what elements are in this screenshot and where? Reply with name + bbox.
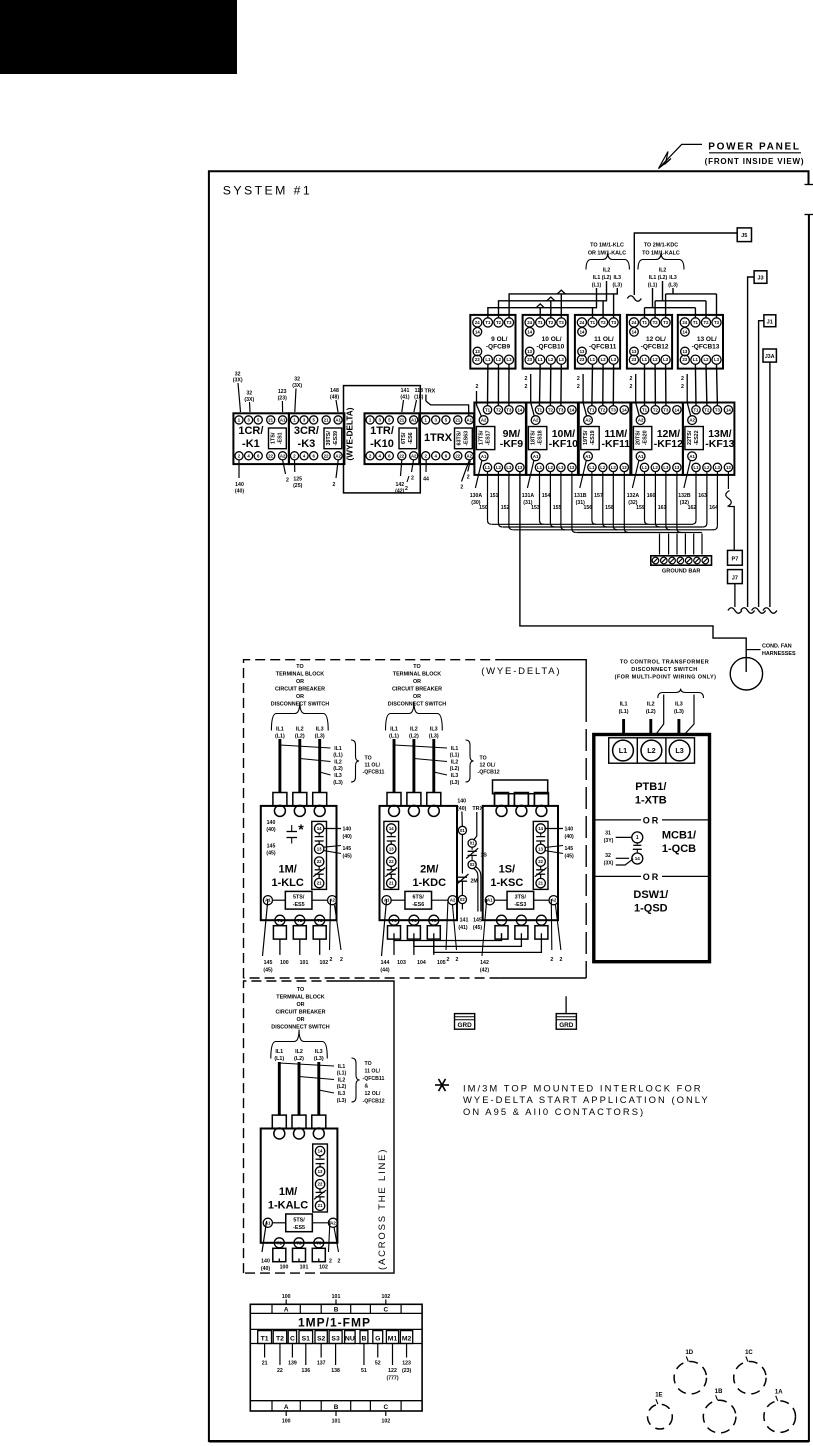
svg-text:(L1): (L1) [275, 734, 285, 740]
overload relay 9OL/-QFCB9 [470, 315, 515, 369]
svg-text:21: 21 [389, 881, 394, 886]
svg-text:131B: 131B [574, 493, 587, 499]
svg-text:IL1: IL1 [275, 1049, 283, 1055]
svg-text:L3: L3 [611, 357, 617, 362]
svg-text:-QFCB9: -QFCB9 [486, 344, 511, 351]
svg-text:132B: 132B [678, 493, 691, 499]
wire 2 2 from 1TR A2 [412, 460, 414, 472]
svg-text:01: 01 [470, 841, 475, 846]
svg-text:1MP/1-FMP: 1MP/1-FMP [298, 1316, 371, 1330]
svg-text:WYE-DELTA START APPLICATION (O: WYE-DELTA START APPLICATION (ONLY [463, 1094, 710, 1105]
wire 164 to P7 brace [727, 472, 729, 490]
svg-text:142: 142 [395, 482, 404, 488]
svg-text:-QFCB12: -QFCB12 [363, 1099, 385, 1105]
svg-text:-KF12: -KF12 [654, 438, 683, 450]
contactor 13M/KF13 [683, 403, 735, 475]
brace group 1 [586, 253, 629, 270]
wire J5 to panel [634, 233, 737, 295]
svg-text:L3: L3 [675, 746, 683, 755]
svg-text:(L3): (L3) [314, 1056, 324, 1062]
svg-text:L2: L2 [496, 465, 502, 470]
harness circle 1D [674, 1362, 706, 1394]
svg-text:(3X): (3X) [233, 378, 243, 384]
svg-text:(L3): (L3) [333, 780, 343, 786]
svg-text:(18): (18) [414, 395, 423, 401]
svg-text:13: 13 [570, 465, 575, 470]
svg-text:13: 13 [538, 846, 543, 851]
svg-text:21: 21 [324, 417, 329, 422]
svg-text:2: 2 [467, 475, 470, 481]
svg-text:18TS/: 18TS/ [531, 430, 537, 445]
svg-text:S1: S1 [302, 1335, 311, 1342]
wire labels under 9M [475, 461, 482, 489]
svg-text:OR: OR [413, 679, 421, 685]
svg-text:23: 23 [632, 357, 637, 362]
svg-text:M1: M1 [388, 1335, 398, 1342]
svg-text:A2: A2 [411, 453, 417, 458]
svg-text:14: 14 [580, 329, 585, 334]
svg-text:L3: L3 [558, 465, 564, 470]
svg-text:5TS/: 5TS/ [293, 1217, 305, 1223]
svg-text:OR: OR [643, 872, 661, 882]
svg-text:A1: A1 [689, 454, 695, 459]
svg-text:(L2): (L2) [295, 734, 305, 740]
cond fan harness circle [730, 658, 762, 690]
1MP terminal cells [250, 1343, 422, 1345]
overload relay 13OL/-QFCB13 [678, 315, 723, 369]
svg-text:A1: A1 [533, 454, 539, 459]
svg-text:DSW1/: DSW1/ [633, 889, 668, 901]
svg-text:IL1: IL1 [649, 275, 657, 281]
wires 10M L1-L3 to ground bus [539, 472, 541, 521]
svg-text:2: 2 [559, 957, 562, 963]
svg-text:102: 102 [319, 1265, 328, 1271]
svg-text:(40): (40) [565, 834, 574, 840]
OR divider 2 [594, 875, 641, 877]
svg-text:NU: NU [345, 1335, 355, 1342]
svg-text:A1: A1 [411, 417, 417, 422]
svg-text:123: 123 [402, 1361, 411, 1367]
svg-text:L1: L1 [538, 357, 544, 362]
svg-text:(777): (777) [386, 1376, 398, 1382]
brace control transformer [658, 689, 704, 698]
svg-text:14: 14 [683, 329, 688, 334]
svg-text:11 OL/: 11 OL/ [365, 763, 381, 769]
relay 1TR/-K10 [365, 413, 420, 464]
svg-text:L1: L1 [589, 465, 595, 470]
svg-text:DISCONNECT SWITCH: DISCONNECT SWITCH [631, 667, 697, 673]
wires 100 101 102 below 1MP [285, 1411, 287, 1416]
svg-text:T1: T1 [277, 1240, 283, 1245]
svg-text:2: 2 [338, 1259, 341, 1265]
svg-text:IL1: IL1 [593, 275, 601, 281]
svg-text:145: 145 [343, 846, 352, 852]
svg-text:IL2: IL2 [647, 702, 655, 708]
svg-text:-ES6: -ES6 [412, 902, 424, 908]
svg-text:T2: T2 [276, 1335, 284, 1342]
svg-text:104: 104 [417, 960, 426, 966]
svg-text:B: B [334, 1404, 339, 1411]
svg-text:A1: A1 [487, 898, 493, 903]
svg-text:(40): (40) [343, 834, 352, 840]
svg-text:130A: 130A [470, 493, 483, 499]
svg-text:19TS/: 19TS/ [583, 430, 589, 445]
svg-text:2: 2 [577, 384, 580, 390]
svg-text:L1: L1 [693, 357, 699, 362]
wires 2 2 from 1TRX A2 [462, 460, 470, 481]
svg-text:9 OL/: 9 OL/ [491, 336, 507, 343]
svg-text:32: 32 [605, 853, 611, 859]
svg-text:101: 101 [300, 1265, 309, 1271]
svg-text:14: 14 [475, 329, 480, 334]
svg-text:20TS/: 20TS/ [636, 430, 642, 445]
svg-text:(23): (23) [402, 1368, 411, 1374]
contactor 1S/1-KSC [493, 780, 548, 794]
outer panel box SYSTEM #1 [209, 171, 809, 1441]
svg-text:IL2: IL2 [338, 1078, 346, 1084]
svg-text:138: 138 [331, 1368, 340, 1374]
svg-text:100: 100 [280, 1265, 289, 1271]
svg-text:-QFCB11: -QFCB11 [363, 770, 385, 776]
svg-text:(L1): (L1) [389, 734, 399, 740]
svg-text:A2: A2 [335, 453, 341, 458]
svg-text:14: 14 [318, 1149, 323, 1154]
wire labels under 13M [684, 461, 691, 489]
ground symbol GRD left [455, 1014, 475, 1030]
svg-text:1-KALC: 1-KALC [268, 1200, 308, 1212]
svg-text:13: 13 [518, 465, 523, 470]
svg-text:22: 22 [268, 453, 273, 458]
svg-text:CIRCUIT BREAKER: CIRCUIT BREAKER [275, 1010, 325, 1016]
relay 1TRX [420, 413, 475, 464]
wires OL to KF [487, 364, 489, 405]
svg-text:POWER PANEL: POWER PANEL [708, 142, 800, 153]
svg-text:13: 13 [475, 349, 480, 354]
svg-text:(45): (45) [266, 851, 275, 857]
svg-text:TERMINAL BLOCK: TERMINAL BLOCK [276, 672, 325, 678]
svg-text:T2: T2 [653, 320, 659, 325]
svg-text:L1: L1 [693, 465, 699, 470]
svg-text:IL2: IL2 [334, 760, 342, 766]
svg-text:158: 158 [605, 505, 614, 511]
brace group 2 [638, 253, 684, 270]
svg-text:L2: L2 [548, 357, 554, 362]
svg-text:A: A [284, 1404, 289, 1411]
svg-text:L1: L1 [642, 465, 648, 470]
svg-text:-ES18: -ES18 [538, 430, 544, 445]
svg-text:(41): (41) [400, 395, 409, 401]
svg-text:IL2: IL2 [451, 760, 459, 766]
svg-text:C: C [383, 1404, 388, 1411]
svg-text:L3: L3 [559, 357, 565, 362]
svg-text:137: 137 [317, 1361, 326, 1367]
svg-text:141: 141 [460, 918, 469, 924]
svg-text:(L3): (L3) [613, 283, 623, 289]
svg-text:22: 22 [538, 859, 543, 864]
svg-text:2M: 2M [471, 879, 478, 885]
svg-text:-ES1: -ES1 [278, 432, 284, 444]
wire J7 down [734, 584, 736, 607]
svg-text:44: 44 [423, 477, 429, 483]
svg-text:A1: A1 [585, 454, 591, 459]
svg-text:2: 2 [333, 482, 336, 488]
bus wire L2 group2 [662, 281, 664, 301]
svg-text:6TS/: 6TS/ [401, 432, 407, 444]
wire 2 from 1CR A2 [283, 460, 286, 474]
svg-text:118: 118 [415, 388, 423, 394]
svg-text:1-QCB: 1-QCB [662, 843, 696, 855]
ground bar [651, 556, 712, 565]
svg-text:2: 2 [340, 957, 343, 963]
svg-text:(L3): (L3) [668, 283, 678, 289]
svg-text:IL2: IL2 [295, 1049, 303, 1055]
svg-text:(3X): (3X) [604, 860, 614, 866]
svg-text:GRD: GRD [457, 1022, 472, 1029]
svg-text:(WYE-DELTA): (WYE-DELTA) [481, 666, 561, 677]
svg-text:S2: S2 [317, 1335, 326, 1342]
wye-delta interconnect wires [394, 933, 502, 940]
svg-text:2: 2 [456, 957, 459, 963]
svg-text:52: 52 [375, 1361, 381, 1367]
svg-text:T2: T2 [703, 320, 709, 325]
svg-text:51: 51 [361, 1368, 367, 1374]
svg-text:T2: T2 [297, 918, 303, 923]
svg-text:12 OL/: 12 OL/ [480, 763, 496, 769]
svg-text:5TS/: 5TS/ [293, 895, 305, 901]
svg-text:2: 2 [286, 478, 289, 484]
svg-text:T1: T1 [261, 1335, 269, 1342]
svg-text:T2: T2 [548, 320, 554, 325]
wire TRX net to 1TRX pins and KF9 A2 [425, 395, 427, 402]
svg-text:A1: A1 [280, 417, 286, 422]
svg-text:(L1): (L1) [333, 753, 343, 759]
wire 125(25) from 3CR pin2 [294, 460, 296, 472]
svg-text:A2: A2 [533, 418, 539, 423]
harness circle 1A [764, 1401, 796, 1433]
svg-text:T3: T3 [316, 1240, 322, 1245]
svg-text:14: 14 [570, 407, 575, 412]
svg-text:(L1): (L1) [592, 283, 602, 289]
svg-text:2: 2 [681, 376, 684, 382]
svg-text:2: 2 [446, 957, 449, 963]
svg-text:(45): (45) [565, 854, 574, 860]
svg-text:A1: A1 [467, 417, 473, 422]
svg-text:TRX: TRX [425, 389, 436, 395]
across-the-line dashed group box [244, 981, 331, 1273]
svg-text:(45): (45) [473, 925, 482, 931]
svg-text:6TS/: 6TS/ [413, 895, 425, 901]
svg-text:&: & [365, 1084, 369, 1090]
svg-text:T4: T4 [411, 918, 417, 923]
svg-text:21: 21 [399, 417, 404, 422]
svg-text:(23): (23) [278, 396, 287, 402]
svg-text:13: 13 [318, 1169, 323, 1174]
svg-text:T3: T3 [558, 407, 564, 412]
svg-text:1: 1 [636, 835, 639, 841]
svg-text:(44): (44) [380, 968, 389, 974]
ground bus horizontal wires [492, 523, 693, 525]
svg-text:T2: T2 [653, 407, 659, 412]
svg-text:1D: 1D [685, 1350, 693, 1356]
svg-text:L3: L3 [611, 465, 617, 470]
svg-text:164: 164 [709, 505, 718, 511]
svg-text:B: B [361, 1335, 366, 1342]
svg-text:L1: L1 [619, 746, 627, 755]
1MP terminal wires and labels [264, 1344, 266, 1358]
svg-text:OR: OR [296, 694, 304, 700]
svg-text:IL2: IL2 [296, 726, 304, 732]
leader arrow to panel [659, 144, 703, 168]
svg-text:M2: M2 [402, 1335, 412, 1342]
wire 2 2 into KF13 A2 [687, 374, 691, 417]
svg-text:TO: TO [297, 987, 304, 993]
svg-text:IL1: IL1 [620, 702, 628, 708]
svg-text:A1: A1 [638, 454, 644, 459]
svg-text:IL1: IL1 [276, 726, 284, 732]
svg-text:IL3: IL3 [315, 1049, 323, 1055]
svg-text:13: 13 [622, 465, 627, 470]
svg-text:J5: J5 [741, 233, 747, 239]
svg-text:140: 140 [343, 827, 352, 833]
svg-text:T3: T3 [663, 320, 669, 325]
2M aux contact [458, 876, 467, 878]
svg-text:A2: A2 [280, 453, 286, 458]
svg-text:*: * [298, 821, 304, 837]
svg-text:01: 01 [460, 828, 465, 833]
svg-text:23: 23 [682, 357, 687, 362]
svg-text:1A: 1A [775, 1389, 783, 1395]
svg-text:(40): (40) [261, 1266, 270, 1272]
svg-text:32: 32 [246, 391, 252, 397]
wye-delta dashed group box [244, 660, 500, 978]
svg-text:J1: J1 [767, 319, 773, 325]
svg-text:2: 2 [329, 1259, 332, 1265]
svg-text:21: 21 [268, 417, 273, 422]
svg-text:A2: A2 [467, 453, 473, 458]
svg-text:(L1): (L1) [337, 1071, 347, 1077]
svg-text:14: 14 [317, 826, 322, 831]
svg-text:T1: T1 [693, 407, 699, 412]
svg-text:L1: L1 [590, 357, 596, 362]
svg-text:IL3: IL3 [669, 275, 677, 281]
svg-text:145: 145 [267, 844, 276, 850]
svg-text:IL1: IL1 [334, 746, 342, 752]
wires below 1M-KALC [262, 1221, 267, 1252]
svg-text:123: 123 [278, 389, 287, 395]
brace arms to L2 L3 [655, 695, 664, 736]
svg-text:2: 2 [524, 384, 527, 390]
svg-text:24: 24 [580, 320, 585, 325]
svg-text:T1: T1 [642, 407, 648, 412]
svg-text:T3: T3 [715, 407, 721, 412]
svg-text:L2: L2 [653, 465, 659, 470]
svg-text:T3: T3 [714, 320, 720, 325]
svg-text:L2: L2 [548, 465, 554, 470]
PTB1 terminal cells [609, 738, 695, 763]
wire J3 down [748, 277, 755, 607]
svg-text:TERMINAL BLOCK: TERMINAL BLOCK [276, 995, 325, 1001]
svg-text:-ES19: -ES19 [590, 430, 596, 445]
svg-text:23: 23 [580, 357, 585, 362]
svg-text:12 OL/: 12 OL/ [646, 336, 666, 343]
svg-text:153: 153 [531, 505, 540, 511]
svg-text:(L2): (L2) [646, 709, 656, 715]
svg-text:13: 13 [389, 846, 394, 851]
svg-text:(42): (42) [480, 968, 489, 974]
svg-text:IL3: IL3 [675, 702, 683, 708]
svg-text:22TS/: 22TS/ [687, 430, 693, 445]
svg-text:IL1: IL1 [338, 1064, 346, 1070]
wire labels under 11M [580, 461, 587, 489]
svg-text:T5: T5 [431, 918, 437, 923]
1M strip side labels [324, 828, 341, 830]
connector J3A [763, 349, 776, 362]
svg-text:103: 103 [397, 960, 406, 966]
svg-text:G: G [375, 1335, 380, 1342]
svg-text:A2: A2 [638, 418, 644, 423]
ground bar drop wires [659, 534, 661, 555]
overload relay 10OL/-QFCB10 [523, 315, 568, 369]
svg-text:L1: L1 [537, 465, 543, 470]
svg-text:(ACROSS THE LINE): (ACROSS THE LINE) [377, 1148, 388, 1270]
svg-text:T2: T2 [496, 320, 502, 325]
svg-text:A2: A2 [450, 898, 456, 903]
svg-text:13 OL/: 13 OL/ [697, 336, 717, 343]
svg-text:2: 2 [405, 486, 408, 492]
svg-text:-KF9: -KF9 [500, 438, 523, 450]
svg-text:11 OL/: 11 OL/ [365, 1069, 381, 1075]
svg-text:100: 100 [282, 1294, 291, 1300]
svg-text:1TRX: 1TRX [424, 432, 453, 444]
svg-text:L2: L2 [600, 465, 606, 470]
svg-text:161: 161 [658, 505, 667, 511]
svg-text:105: 105 [437, 960, 446, 966]
svg-text:24: 24 [632, 320, 637, 325]
svg-text:02: 02 [460, 897, 465, 902]
svg-text:T3: T3 [506, 407, 512, 412]
svg-text:L2: L2 [653, 357, 659, 362]
svg-text:A: A [284, 1306, 289, 1313]
svg-text:-KF11: -KF11 [602, 438, 631, 450]
svg-text:TO: TO [365, 756, 372, 762]
svg-text:L1: L1 [485, 357, 491, 362]
svg-text:21: 21 [317, 881, 322, 886]
svg-text:21: 21 [262, 1361, 268, 1367]
svg-text:OR: OR [296, 679, 304, 685]
svg-text:L3: L3 [506, 465, 512, 470]
bus wire L1 group2 [652, 288, 654, 308]
svg-text:DISCONNECT SWITCH: DISCONNECT SWITCH [388, 702, 447, 708]
wires 02 down to 145(45) [474, 869, 478, 912]
svg-text:-QFCB10: -QFCB10 [536, 344, 564, 351]
harness circle 1C [734, 1362, 766, 1394]
wires 9M L1-L3 to ground bus [487, 472, 489, 521]
svg-text:157: 157 [594, 493, 603, 499]
svg-text:S3: S3 [331, 1335, 340, 1342]
svg-text:14: 14 [675, 407, 680, 412]
svg-text:148: 148 [330, 388, 339, 394]
svg-text:L2: L2 [496, 357, 502, 362]
svg-text:162: 162 [688, 505, 697, 511]
svg-text:2: 2 [577, 376, 580, 382]
svg-text:(45): (45) [263, 968, 272, 974]
svg-text:140: 140 [457, 799, 466, 805]
svg-text:-KF13: -KF13 [705, 438, 734, 450]
svg-text:139: 139 [288, 1361, 297, 1367]
svg-text:(45): (45) [343, 854, 352, 860]
wire J1 down [759, 321, 764, 607]
wires 13M L1-L3 to ground bus [695, 472, 697, 521]
